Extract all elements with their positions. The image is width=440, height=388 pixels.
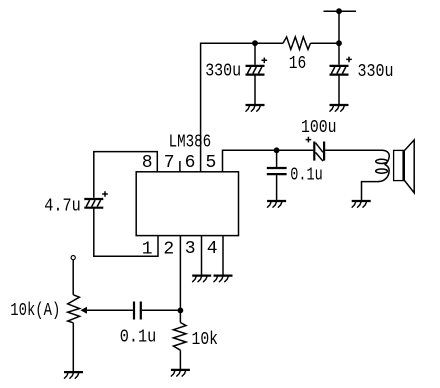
potentiometer VR1 10k(A) (68, 295, 80, 323)
plus mark C5 (306, 137, 312, 143)
svg-text:330u: 330u (358, 62, 394, 82)
svg-text:8: 8 (142, 153, 153, 173)
wire C1 to ground (254, 75, 256, 105)
wire junction to C4 0.1u (276, 150, 278, 167)
capacitor C5 100u plates (313, 142, 315, 161)
speaker coil bracket (378, 150, 389, 181)
resistor R2 10k (173, 323, 186, 351)
speaker SP1 cone (405, 140, 415, 193)
ground pin 3 (192, 276, 211, 282)
wire C5 to speaker coil (325, 149, 382, 151)
node output junction (274, 147, 280, 153)
svg-text:3: 3 (185, 239, 196, 259)
capacitor C6 0.1u plates (133, 302, 135, 320)
wire resistor to right node (311, 42, 340, 44)
capacitor C3 4.7u (84, 199, 103, 208)
svg-text:0.1u: 0.1u (120, 328, 157, 348)
pin 4 ground wire (222, 236, 224, 276)
pin 7 stub (179, 161, 181, 172)
speaker SP1 frame (394, 150, 404, 180)
svg-text:330u: 330u (205, 62, 241, 82)
svg-text:10k: 10k (192, 330, 219, 350)
node pin2 junction (178, 308, 184, 314)
speaker SP1 magnet bar (402, 150, 405, 180)
svg-text:7: 7 (164, 153, 175, 173)
op-amp U1 LM386 body (136, 172, 238, 236)
input terminal circle (71, 256, 75, 260)
speaker voice coil loop 1 (376, 159, 388, 163)
wire R2 to ground (179, 350, 181, 370)
capacitor C2 330u right (330, 66, 349, 75)
svg-text:4: 4 (207, 239, 218, 259)
wire terminal to potentiometer (72, 260, 74, 295)
capacitor C1 330u left (246, 66, 265, 75)
speaker voice coil loop 2 (376, 169, 388, 173)
svg-text:4.7u: 4.7u (44, 196, 81, 216)
ground under C1 (246, 105, 265, 111)
capacitor C4 0.1u shunt (267, 167, 287, 169)
wire C4 to ground (276, 175, 278, 201)
svg-text:6: 6 (185, 153, 196, 173)
plus mark C3 (102, 191, 108, 197)
ground under R2 (171, 370, 190, 376)
pin 5 output wire (223, 150, 314, 172)
pin 2 wire down (179, 236, 181, 311)
ground under speaker (352, 201, 371, 207)
pot wiper arrow (80, 307, 87, 314)
wire node to capacitor C 330u left (254, 43, 256, 65)
wire junction to resistor 10k (179, 310, 181, 322)
svg-text:2: 2 (163, 240, 174, 260)
svg-text:5: 5 (206, 153, 217, 173)
node V+ junction dot (336, 8, 342, 14)
svg-text:LM386: LM386 (169, 132, 212, 152)
pin 3 ground wire (201, 236, 203, 276)
wire V+ node to capacitor C2 330u right (338, 43, 340, 65)
power input terminal bar (324, 10, 357, 12)
svg-text:100u: 100u (301, 118, 337, 138)
svg-text:10k(A): 10k(A) (10, 301, 60, 321)
wire C6 to pin2 junction (142, 309, 181, 311)
wire wiper to C6 (87, 309, 133, 311)
ground under pot (64, 372, 83, 378)
svg-text:0.1u: 0.1u (290, 165, 323, 185)
ground under C2 (330, 105, 349, 111)
node right of resistor 16 (336, 40, 342, 46)
resistor R 16 (283, 37, 311, 50)
wire supply rail left segment (201, 43, 283, 172)
plus mark C2 (346, 57, 352, 63)
svg-text:16: 16 (289, 54, 307, 74)
wire coil to ground (362, 182, 379, 201)
pin 8 wire to bypass loop (94, 152, 158, 198)
wire C2 to ground (338, 75, 340, 105)
wire pot to ground (72, 323, 74, 372)
ground pin 4 (214, 276, 233, 282)
ground under C4 (267, 201, 286, 207)
wire V+ down to resistor node (338, 11, 340, 43)
node left of resistor 16 (252, 40, 258, 46)
plus mark C1 (262, 58, 268, 64)
wire C3 to pin 1 (94, 208, 158, 256)
